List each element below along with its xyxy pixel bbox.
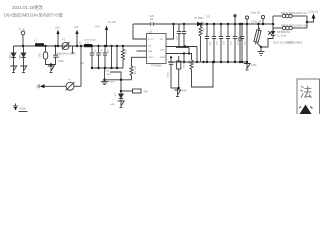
capacitor C32 bbox=[234, 23, 237, 26]
varistor RV2 crossed bbox=[257, 23, 260, 26]
zener D5 bbox=[114, 94, 116, 98]
svg-text:D7 SS34: D7 SS34 bbox=[194, 17, 204, 20]
pin GND right stub bbox=[166, 46, 197, 48]
title block box bbox=[297, 79, 320, 117]
svg-text:1uF: 1uF bbox=[150, 19, 155, 21]
IC U2 TPS5430 bbox=[149, 30, 153, 34]
wire x117 bus to gnd rail bbox=[116, 45, 118, 47]
wire: main input bus y=46 bbox=[14, 45, 147, 47]
svg-text:PGND: PGND bbox=[109, 82, 116, 84]
capacitor C31 bbox=[227, 23, 230, 26]
svg-text:D6A改成SMBJ24A单向的TVS管: D6A改成SMBJ24A单向的TVS管 bbox=[4, 12, 63, 18]
svg-text:12Va_IN: 12Va_IN bbox=[308, 10, 318, 14]
svg-text:GND: GND bbox=[181, 90, 187, 93]
svg-text:P_IN: P_IN bbox=[19, 28, 25, 32]
svg-text:12Va_IN: 12Va_IN bbox=[250, 11, 260, 15]
svg-text:24_DP: 24_DP bbox=[108, 20, 116, 24]
svg-text:C26: C26 bbox=[150, 16, 155, 18]
feedback R23 bbox=[190, 54, 192, 61]
ground chevron bbox=[50, 65, 52, 67]
svg-text:PPAD: PPAD bbox=[160, 56, 166, 59]
power flag arrow 24_DP bbox=[106, 30, 108, 47]
pin3 stub bbox=[137, 50, 147, 52]
svg-text:RV1: RV1 bbox=[38, 53, 41, 58]
wire x81 to bus bbox=[80, 46, 82, 86]
svg-text:GND: GND bbox=[110, 104, 115, 106]
svg-text:12Vb_IN: 12Vb_IN bbox=[251, 20, 261, 24]
boot cap C26 bbox=[150, 16, 155, 21]
svg-text:GND: GND bbox=[105, 71, 110, 73]
svg-text:AGND: AGND bbox=[19, 108, 26, 111]
svg-text:VIN: VIN bbox=[148, 46, 152, 48]
output arrow 12Va bbox=[307, 18, 314, 22]
svg-text:ENA: ENA bbox=[148, 50, 153, 53]
BOOT line y24 with cap bbox=[133, 23, 151, 25]
right edge bbox=[306, 16, 308, 28]
svg-text:U2: U2 bbox=[149, 30, 153, 34]
pin VSENSE right stub bbox=[166, 53, 184, 55]
node join bbox=[50, 63, 52, 65]
bottom-left loop: arrow and fuse circle F2 bbox=[38, 84, 40, 88]
stub x72.5 below bus bbox=[72, 46, 74, 53]
ground rail left y=68 bbox=[92, 67, 123, 69]
wire x197 bbox=[196, 47, 198, 63]
ferrite bead L2 on bus bbox=[79, 41, 89, 44]
catch diode D7 on rail bbox=[194, 17, 204, 20]
svg-text:GND: GND bbox=[106, 74, 111, 76]
note text bbox=[273, 40, 303, 44]
svg-text:GND: GND bbox=[251, 64, 257, 67]
pin4 VSNS stub bbox=[131, 56, 147, 58]
svg-text:GND: GND bbox=[160, 50, 165, 52]
input cap C24 bbox=[104, 45, 106, 47]
wire y79.8 bbox=[105, 79, 132, 81]
testpoint circle on rail bbox=[234, 17, 236, 24]
wire: bus left corner down bbox=[13, 46, 15, 52]
switch node rail y24 bbox=[174, 23, 198, 25]
wire x247 circle A to rail bbox=[245, 16, 248, 19]
diode D8 crossed out bbox=[272, 23, 275, 26]
TVS diode D6B bbox=[18, 54, 21, 59]
capacitor C29 bbox=[213, 23, 216, 26]
comp cap Cb bbox=[183, 24, 185, 32]
note text line 1 bbox=[12, 4, 43, 11]
capacitor C21 bbox=[57, 54, 60, 59]
input cap C23 bbox=[97, 45, 99, 47]
fuse F1 circle with slash bbox=[62, 38, 66, 42]
node x55 bbox=[54, 45, 56, 47]
svg-text:SW: SW bbox=[144, 90, 149, 94]
svg-text:C106: C106 bbox=[182, 63, 184, 69]
small ground with label bottom-left bbox=[15, 104, 17, 107]
comp cap Ca bbox=[178, 24, 180, 32]
lower branch bbox=[273, 27, 282, 29]
TVS diode D6A bbox=[8, 54, 11, 59]
ground sym under rail bbox=[104, 68, 106, 80]
bulk caps C105/C106 under GND line bbox=[170, 57, 172, 62]
SW net box lower bbox=[120, 90, 123, 93]
vertical cap from rail24 to gnd rail x240 bbox=[239, 23, 242, 26]
ground bbox=[118, 101, 124, 106]
varistor RV1 box bbox=[38, 53, 41, 58]
svg-text:24V: 24V bbox=[55, 26, 60, 30]
ground for D6B bbox=[20, 66, 26, 71]
svg-text:D6A: D6A bbox=[8, 54, 11, 59]
output cap bank: 6 caps bbox=[205, 23, 245, 62]
svg-text:D6B: D6B bbox=[18, 54, 21, 59]
capacitor C33 bbox=[241, 23, 244, 26]
upper branch bbox=[273, 15, 282, 17]
svg-text:GND: GND bbox=[58, 60, 64, 63]
svg-text:R21 10K: R21 10K bbox=[134, 66, 136, 75]
capacitor C30 bbox=[220, 23, 223, 26]
svg-text:2021.01.19更改: 2021.01.19更改 bbox=[12, 4, 43, 11]
comp rail bbox=[176, 47, 189, 49]
wire y72 stub to SW area bbox=[110, 72, 121, 91]
note text line 2 bbox=[4, 12, 63, 18]
FB loop bbox=[272, 16, 274, 33]
circle B bbox=[261, 15, 264, 18]
inductor L3 vertical bbox=[200, 24, 202, 27]
connector P1 circle bbox=[21, 31, 25, 35]
wire: connector to bus bbox=[22, 35, 24, 46]
ground bars bbox=[258, 51, 265, 53]
node on bus x=23 bbox=[22, 45, 24, 47]
node SW rail dots bbox=[199, 23, 202, 26]
power flag arrow 24V a bbox=[55, 26, 60, 30]
PH pin to switch node bbox=[166, 24, 174, 39]
resistor R21 vertical bbox=[131, 57, 133, 66]
svg-text:C105: C105 bbox=[166, 72, 168, 78]
svg-text:BOOT: BOOT bbox=[148, 39, 154, 41]
svg-text:TPS5430: TPS5430 bbox=[151, 64, 162, 68]
input cap bank C22 bbox=[91, 45, 93, 47]
capacitor C28 bbox=[206, 23, 209, 26]
svg-text:SL-13-M: SL-13-M bbox=[277, 35, 286, 38]
svg-text:2021.01.16删除5V/ENC: 2021.01.16删除5V/ENC bbox=[273, 40, 303, 44]
resistor R20 bbox=[122, 45, 124, 47]
output ground rail y62 bbox=[168, 61, 247, 63]
node x45 bbox=[44, 45, 46, 47]
svg-text:法: 法 bbox=[300, 85, 313, 100]
ground for D6A bbox=[10, 66, 16, 71]
svg-text:VSNS: VSNS bbox=[148, 57, 154, 59]
svg-text:24V: 24V bbox=[95, 25, 100, 29]
wire x111.5 bbox=[110, 45, 112, 47]
gnd stub right of rail bbox=[246, 62, 248, 64]
power flag arrow 24V b bbox=[76, 34, 78, 46]
inductor L1 black bead on bus bbox=[34, 39, 37, 43]
svg-text:24V: 24V bbox=[74, 25, 79, 29]
svg-text:GZ2012D601: GZ2012D601 bbox=[84, 40, 97, 42]
pin1 BOOT trace up bbox=[133, 24, 147, 39]
svg-text:12V: 12V bbox=[206, 17, 211, 19]
